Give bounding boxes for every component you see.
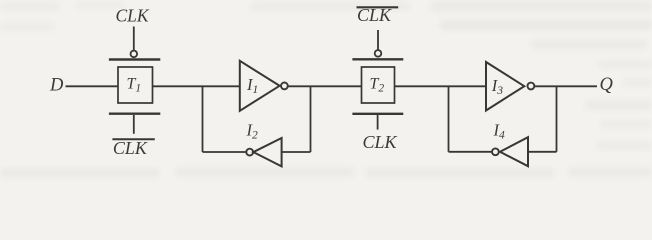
wire feedback left vertical (I4 output to I3 input) [448,86,450,152]
wire T1 to I1 [153,85,240,87]
wire feedback left vertical (I2 output to I1 input) [202,86,204,152]
wire I4 input segment [528,151,557,153]
svg-text:CLK: CLK [363,132,398,152]
T1 top gate bubble [131,51,138,58]
I4 output bubble [492,148,499,155]
wire I3 to Q [535,85,597,87]
wire T1 bottom gate stub [133,115,135,134]
T1 top gate bar [109,58,160,60]
wire T2 bottom gate stub [377,115,379,130]
node CLKbar label (top of T2) [357,6,399,8]
wire I2 output segment [203,151,247,153]
T1 bottom gate bar [109,112,160,114]
svg-text:Q: Q [600,75,614,95]
wire T2 to I3 [395,85,487,87]
wire I4 output segment [449,151,492,153]
T2 top gate bubble [375,50,382,57]
I3 output bubble [528,83,535,90]
transmission gate T1 box [118,67,153,103]
svg-text:CLK: CLK [357,5,392,25]
svg-text:D: D [49,75,64,95]
wire I2 input segment [282,151,311,153]
inverter I2 (left pointing) [253,138,281,166]
svg-text:CLK: CLK [113,138,148,158]
wire CLK to T1 bubble [133,27,135,51]
bleed-through mottling (decorative) [0,1,652,178]
paper background [0,0,652,182]
node CLKbar label (bottom of T1) [112,138,154,140]
wire I1 to T2 [288,85,362,87]
wire CLKbar to T2 bubble [377,30,379,50]
svg-text:CLK: CLK [116,6,150,26]
wire D to T1 [66,85,119,87]
wire feedback right vertical (I1 output down to I2 input) [310,86,312,152]
I1 output bubble [281,83,288,90]
I2 output bubble [246,149,253,156]
transmission gate T2 box [362,67,395,103]
inverter I3 [486,62,524,111]
T2 bottom gate bar [352,113,403,115]
wire feedback right vertical (I3 output down to I4 input) [556,86,558,152]
inverter I1 [240,61,280,111]
T2 top gate bar [352,58,403,60]
inverter I4 (left pointing) [500,137,528,166]
